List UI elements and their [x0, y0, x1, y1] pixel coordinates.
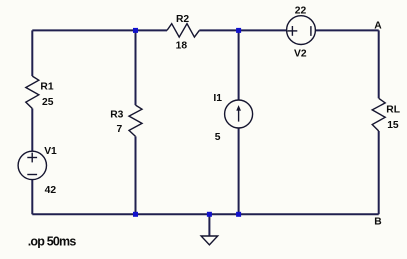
- junction on bottom rail at I1 branch: [236, 212, 241, 217]
- svg-text:I1: I1: [213, 93, 222, 104]
- svg-text:R3: R3: [110, 110, 123, 121]
- wire I1 branch upper: [238, 30, 240, 100]
- svg-text:22: 22: [295, 6, 307, 17]
- wire right branch upper: node A to RL: [378, 30, 380, 98]
- voltage source V2: [287, 6, 316, 60]
- current source I1: [213, 93, 252, 143]
- svg-text:42: 42: [45, 185, 57, 196]
- svg-text:.op 50ms: .op 50ms: [28, 235, 77, 249]
- svg-text:7: 7: [117, 124, 123, 135]
- wire left branch upper: corner to R1: [31, 30, 33, 76]
- resistor R2: [167, 14, 199, 52]
- resistor R1: [26, 76, 54, 108]
- wire left branch: R1 to V1: [31, 109, 33, 152]
- wire right branch lower: RL to node B: [378, 131, 380, 214]
- svg-text:18: 18: [176, 40, 188, 51]
- junction on top rail at I1 branch: [236, 28, 241, 33]
- svg-text:25: 25: [42, 97, 54, 108]
- svg-text:V2: V2: [294, 48, 307, 59]
- wire bottom rail: [32, 213, 378, 215]
- svg-text:A: A: [374, 20, 382, 31]
- svg-text:15: 15: [387, 120, 399, 131]
- wire left branch lower: V1 to bottom rail: [31, 180, 33, 215]
- wire I1 branch lower: [238, 128, 240, 214]
- svg-text:B: B: [374, 217, 381, 228]
- voltage source V1: [18, 146, 57, 196]
- wire top rail left: corner to R2: [32, 29, 167, 31]
- junction on bottom rail at R3 branch: [133, 212, 138, 217]
- svg-text:R2: R2: [176, 14, 189, 25]
- resistor RL: [372, 98, 400, 131]
- ground: [201, 214, 218, 245]
- resistor R3: [110, 105, 142, 136]
- wire top rail: R2 to V2: [199, 29, 286, 31]
- junction on top rail at R3 branch: [133, 28, 138, 33]
- svg-text:5: 5: [215, 132, 221, 143]
- wire top rail: V2 to node A corner: [315, 29, 378, 31]
- svg-text:V1: V1: [44, 146, 57, 157]
- wire R3 branch lower: [135, 136, 137, 214]
- junction on bottom rail at ground: [207, 212, 212, 217]
- svg-text:RL: RL: [386, 105, 400, 116]
- svg-text:R1: R1: [40, 81, 53, 92]
- wire R3 branch upper: [135, 30, 137, 105]
